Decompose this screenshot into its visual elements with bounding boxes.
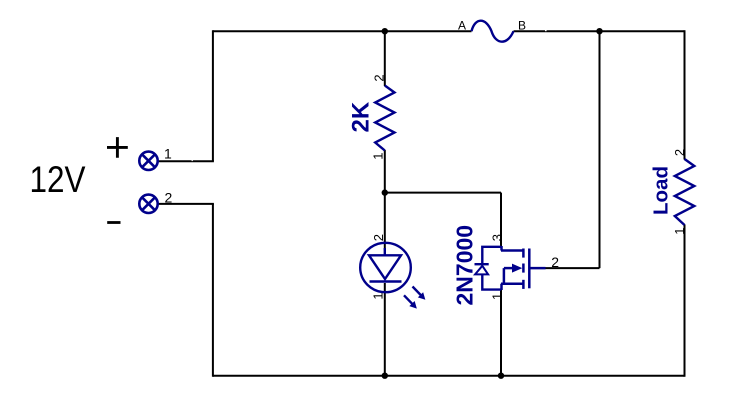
svg-text:2: 2 bbox=[372, 74, 387, 81]
wire MOSFET gate horizontal bbox=[545, 267, 600, 269]
resistor Load zigzag bbox=[675, 159, 695, 225]
svg-text:Load: Load bbox=[649, 166, 672, 215]
svg-text:1: 1 bbox=[164, 146, 172, 162]
wire 2K resistor bottom lead to node bbox=[384, 150, 386, 193]
LED cathode bar bbox=[370, 280, 402, 282]
wire join notch bbox=[545, 30, 547, 31]
svg-text:2: 2 bbox=[371, 234, 386, 241]
wire left vertical (+ side) bbox=[212, 30, 214, 161]
wire join notch (terminal 1 run) bbox=[192, 160, 193, 161]
minus sign bbox=[107, 221, 120, 224]
wire bottom rail bbox=[213, 375, 685, 377]
channel tick body bbox=[522, 264, 525, 273]
wire terminal 2 to corner bbox=[158, 203, 214, 205]
body connector vertical bbox=[503, 268, 506, 284]
transistor Q1 2N7000 MOSFET bbox=[501, 246, 546, 290]
LED emission arrow upper bbox=[410, 284, 428, 302]
body arrow head bbox=[512, 264, 522, 273]
terminal 2 (circle-X) bbox=[139, 195, 157, 213]
svg-text:1: 1 bbox=[371, 292, 386, 299]
channel tick drain bbox=[522, 249, 525, 258]
resistor 2K zigzag bbox=[375, 86, 394, 151]
svg-text:2: 2 bbox=[165, 189, 173, 205]
svg-text:2K: 2K bbox=[348, 101, 375, 132]
body diode cathode bar bbox=[475, 263, 489, 265]
svg-text:3: 3 bbox=[489, 234, 504, 241]
wire left vertical (- side) bbox=[212, 204, 214, 377]
wire top rail left segment bbox=[213, 30, 472, 32]
svg-text:2: 2 bbox=[551, 254, 559, 270]
wire right vertical above Load bbox=[684, 30, 686, 159]
wire 2K resistor top lead bbox=[384, 31, 386, 86]
gate bar bbox=[528, 249, 531, 289]
gate lead bbox=[529, 267, 545, 270]
body diode bracket top bbox=[482, 247, 501, 263]
svg-text:12V: 12V bbox=[30, 159, 86, 200]
svg-text:2N7000: 2N7000 bbox=[452, 225, 478, 306]
squiggle wire A-B bbox=[472, 21, 514, 42]
svg-text:A: A bbox=[458, 19, 466, 33]
channel tick source bbox=[522, 280, 525, 289]
LED triangle bbox=[369, 255, 401, 279]
node junction top at 2K bbox=[382, 28, 388, 34]
wire top rail right segment bbox=[514, 30, 685, 32]
node junction top at gate wire bbox=[596, 28, 602, 34]
svg-text:1: 1 bbox=[489, 293, 504, 300]
svg-text:1: 1 bbox=[371, 152, 386, 159]
wire MOSFET drain vertical bbox=[500, 193, 502, 247]
wire MOSFET source to bottom rail bbox=[500, 289, 502, 377]
wire right vertical below Load bbox=[684, 225, 686, 377]
body arrow line bbox=[504, 267, 513, 270]
wire node to MOSFET drain horizontal bbox=[385, 192, 501, 194]
svg-text:1: 1 bbox=[672, 227, 687, 234]
wire LED cathode lead bbox=[384, 283, 386, 377]
LED anode stub bbox=[384, 248, 386, 255]
source lead bbox=[501, 284, 523, 290]
terminal 1 (circle-X) bbox=[139, 152, 157, 170]
wire gate vertical to top rail bbox=[599, 31, 601, 268]
plus sign bbox=[107, 137, 128, 158]
LED emission arrow lower bbox=[401, 293, 419, 311]
LED D1 bbox=[360, 243, 411, 292]
node junction 2K/LED/drain bbox=[382, 189, 388, 195]
drain lead bbox=[501, 246, 523, 251]
node junction bottom at source bbox=[498, 373, 504, 379]
svg-text:B: B bbox=[518, 19, 526, 33]
node junction bottom at LED bbox=[382, 373, 388, 379]
wire LED anode lead bbox=[384, 193, 386, 250]
body diode triangle bbox=[475, 266, 488, 275]
LED circle bbox=[360, 243, 411, 292]
wire terminal 1 to corner bbox=[158, 160, 214, 162]
body diode bracket bottom bbox=[482, 275, 501, 290]
svg-text:2: 2 bbox=[672, 149, 687, 156]
